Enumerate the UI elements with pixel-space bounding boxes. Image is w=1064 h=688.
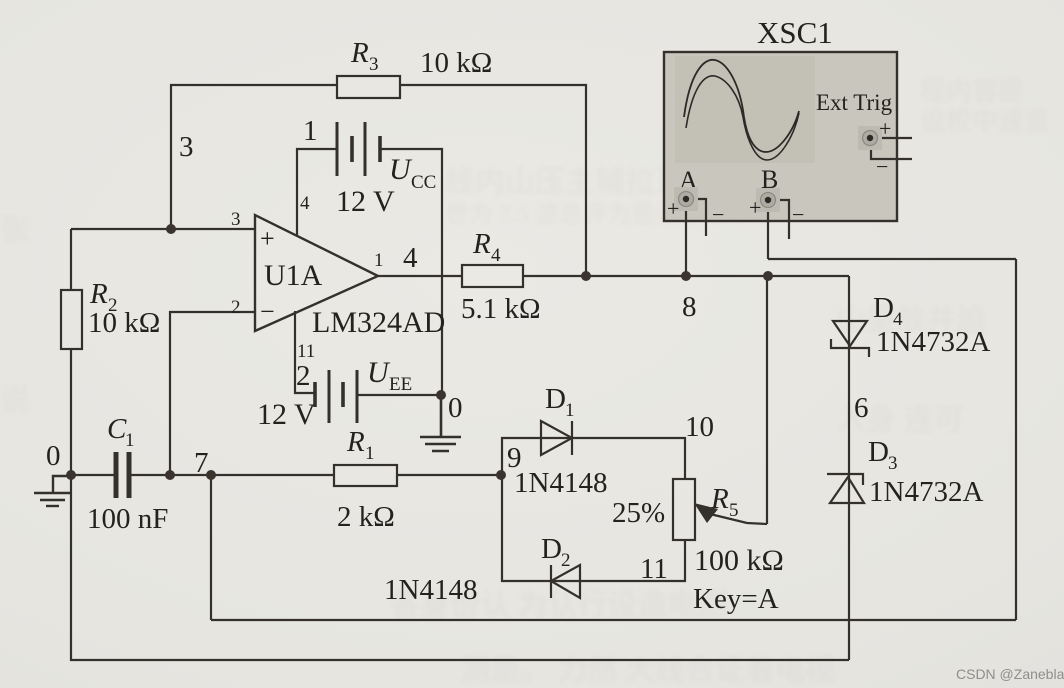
wire scope B terminal down — [767, 200, 769, 259]
wire pin2 horizontal and down to node 7 line — [170, 312, 255, 475]
junction dot node 9 — [496, 470, 506, 480]
svg-text:LM324AD: LM324AD — [312, 306, 445, 339]
svg-text:U: U — [367, 356, 391, 389]
svg-text:100 kΩ: 100 kΩ — [694, 544, 784, 577]
junction dot node 7 — [206, 470, 216, 480]
svg-text:−: − — [712, 202, 724, 227]
svg-text:10 kΩ: 10 kΩ — [88, 307, 160, 339]
svg-text:12 V: 12 V — [257, 398, 316, 431]
svg-text:12 V: 12 V — [336, 185, 395, 218]
svg-text:10: 10 — [685, 411, 714, 443]
svg-text:1: 1 — [374, 250, 384, 271]
svg-text:EE: EE — [389, 374, 412, 395]
svg-text:R: R — [346, 426, 365, 458]
potentiometer R5 — [673, 479, 695, 540]
svg-text:XSC1: XSC1 — [757, 15, 833, 50]
svg-text:Ext Trig: Ext Trig — [816, 90, 893, 115]
svg-text:CSDN @Zanebla: CSDN @Zanebla — [956, 666, 1064, 682]
wire scope B minus stub — [768, 200, 789, 239]
svg-text:11: 11 — [297, 341, 315, 362]
resistor R3 — [337, 76, 400, 98]
wire zener branch — [848, 276, 850, 660]
svg-text:U1A: U1A — [264, 259, 323, 292]
svg-text:−: − — [792, 202, 804, 227]
svg-text:说: 说 — [0, 384, 30, 417]
wire UEE right lead — [357, 394, 441, 396]
wire UCC left lead — [297, 149, 337, 235]
scope terminal A — [674, 187, 698, 211]
svg-text:10 kΩ: 10 kΩ — [420, 47, 492, 79]
wire main output line R4 to zener corner — [523, 275, 849, 277]
svg-text:D: D — [545, 383, 566, 415]
wire C1 to R1 — [130, 474, 334, 476]
wire op-amp output to R4 — [378, 275, 462, 277]
svg-text:设校中速览: 设校中速览 — [920, 107, 1050, 136]
junction dot UEE node 0 — [436, 390, 446, 400]
ground at UEE node 0 — [420, 395, 461, 451]
svg-text:C: C — [107, 413, 127, 445]
junction dot wiper on main line — [763, 271, 773, 281]
svg-text:3: 3 — [179, 131, 194, 163]
svg-text:−: − — [260, 297, 275, 326]
svg-text:R: R — [472, 228, 491, 260]
svg-text:1: 1 — [303, 115, 318, 147]
oscilloscope XSC1 body — [664, 52, 897, 221]
wire UCC right lead down to node 0 — [380, 149, 442, 395]
wire R3 top right segment — [400, 85, 586, 276]
diode D2 — [551, 565, 580, 598]
wire scope A minus stub — [686, 199, 706, 236]
potentiometer R5 wiper arrow — [694, 503, 718, 523]
svg-text:1: 1 — [125, 430, 135, 451]
svg-text:0: 0 — [448, 392, 463, 424]
svg-text:R: R — [350, 37, 369, 69]
wire node9 down branch to D2 — [502, 475, 580, 581]
svg-text:8: 8 — [682, 291, 697, 323]
wire D2 to R5 bottom — [580, 540, 685, 581]
svg-text:张: 张 — [0, 214, 30, 247]
svg-text:25%: 25% — [612, 497, 665, 529]
svg-text:4: 4 — [491, 245, 501, 266]
svg-text:2: 2 — [296, 360, 311, 392]
svg-text:+: + — [260, 224, 275, 253]
junction dot node 0 — [66, 470, 76, 480]
wire R5 wiper vertical — [766, 276, 768, 524]
wire right edge vertical — [1015, 259, 1017, 620]
svg-text:D: D — [873, 292, 894, 324]
svg-text:1N4148: 1N4148 — [384, 574, 477, 606]
svg-text:+: + — [879, 116, 891, 141]
zener diode D4 — [831, 321, 869, 357]
svg-text:6: 6 — [854, 392, 869, 424]
svg-text:3: 3 — [231, 209, 241, 230]
resistor R1 — [334, 465, 397, 486]
svg-text:4: 4 — [300, 193, 310, 214]
zener diode D3 — [827, 474, 864, 503]
scope ext trig terminal — [858, 126, 882, 150]
resistor R2 — [61, 290, 82, 349]
wire scope B horizontal — [768, 258, 1016, 260]
wire node0 down left edge bottom — [71, 475, 849, 660]
svg-text:Key=A: Key=A — [693, 583, 779, 615]
svg-text:程内容提: 程内容提 — [920, 77, 1024, 106]
wire node9 up branch with D1 — [502, 438, 572, 475]
svg-text:5.1 kΩ: 5.1 kΩ — [461, 293, 541, 325]
battery UCC plates — [337, 122, 380, 176]
svg-text:−: − — [876, 154, 888, 179]
wire R2 top vertical — [70, 229, 72, 290]
op-amp U1A triangle — [255, 215, 378, 331]
scope terminal B — [756, 188, 780, 212]
svg-text:1: 1 — [565, 400, 575, 421]
junction dot pin2 on bottom wire — [165, 470, 175, 480]
wire node0 to C1 — [71, 474, 115, 476]
wire R2 bottom vertical — [70, 349, 72, 475]
svg-text:2: 2 — [561, 550, 571, 571]
wire pin11 down to UEE — [295, 311, 315, 393]
svg-text:+: + — [749, 195, 761, 220]
svg-text:D: D — [868, 436, 889, 468]
junction dot R3 to main line — [581, 271, 591, 281]
svg-text:1N4732A: 1N4732A — [876, 326, 990, 358]
svg-text:1N4148: 1N4148 — [514, 467, 607, 499]
wire R5 wiper link — [710, 514, 767, 524]
scope sine waveform — [684, 60, 799, 152]
svg-text:11: 11 — [640, 553, 668, 585]
scope ext trig stub wires — [870, 137, 912, 139]
svg-text:1: 1 — [365, 443, 375, 464]
wire node7 vertical down — [210, 475, 212, 620]
wire scope A terminal down to main line — [685, 199, 687, 276]
diode D1 — [541, 421, 572, 455]
svg-text:100 nF: 100 nF — [87, 503, 168, 535]
capacitor C1 plates — [114, 452, 119, 498]
svg-text:2 kΩ: 2 kΩ — [337, 501, 395, 533]
svg-text:5: 5 — [729, 500, 739, 521]
svg-text:3: 3 — [888, 453, 898, 474]
svg-text:0: 0 — [46, 440, 61, 472]
wire R3 top left segment — [171, 85, 337, 229]
resistor R4 — [462, 265, 523, 287]
ground at node 0 left — [34, 476, 71, 506]
wire D1 to R5 top — [572, 438, 685, 479]
svg-text:R: R — [89, 278, 108, 310]
svg-text:+: + — [667, 196, 679, 221]
svg-text:R: R — [710, 483, 729, 515]
wire R1 to node 9 — [397, 474, 502, 476]
svg-text:1N4732A: 1N4732A — [869, 476, 983, 508]
svg-text:D: D — [541, 533, 562, 565]
svg-text:U: U — [389, 153, 413, 186]
wire bottom horizontal node7 to right — [211, 619, 1016, 621]
junction dot node 8 — [681, 271, 691, 281]
node A junction dot (node 3) — [166, 224, 176, 234]
battery UEE plates — [315, 370, 357, 423]
svg-text:3: 3 — [369, 54, 379, 75]
wire pin3 horizontal — [71, 228, 255, 230]
svg-text:2: 2 — [231, 297, 241, 318]
svg-text:9: 9 — [507, 442, 522, 474]
svg-text:CC: CC — [411, 172, 436, 193]
svg-text:4: 4 — [403, 242, 418, 274]
